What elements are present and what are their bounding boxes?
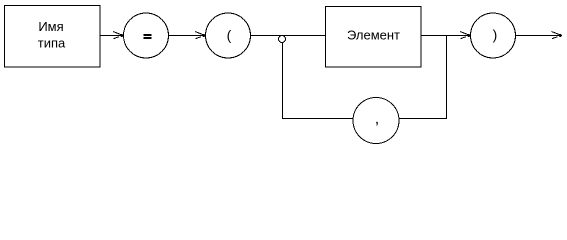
wire: ")" circle to output arrow — [516, 32, 563, 39]
wire: "(" circle to Элемент box — [251, 35, 326, 37]
svg-text:Элемент: Элемент — [347, 28, 400, 43]
box: Элемент — [326, 7, 422, 68]
svg-text:типа: типа — [38, 36, 66, 51]
wire: loop bottom left segment — [282, 118, 354, 120]
circle: , — [353, 98, 399, 144]
svg-text:,: , — [375, 111, 379, 128]
wire: loop right vertical up to main line — [446, 36, 448, 119]
junction node (small circle on wire) — [279, 36, 286, 43]
circle: ( — [206, 13, 251, 58]
circle: = — [124, 13, 169, 58]
svg-text:Имя: Имя — [38, 19, 63, 34]
wire: box to "=" circle with arrowhead — [100, 32, 124, 39]
wire: "=" circle to "(" circle with arrowhead — [169, 32, 206, 39]
wire: Элемент box to ")" circle with arrowhead — [421, 32, 470, 39]
svg-text:(: ( — [227, 27, 232, 43]
wire: loop left vertical — [282, 43, 284, 119]
svg-text:): ) — [493, 27, 498, 43]
wire: loop bottom right segment — [399, 118, 448, 120]
circle: ) — [471, 13, 516, 58]
box: Имя типа — [5, 6, 101, 68]
